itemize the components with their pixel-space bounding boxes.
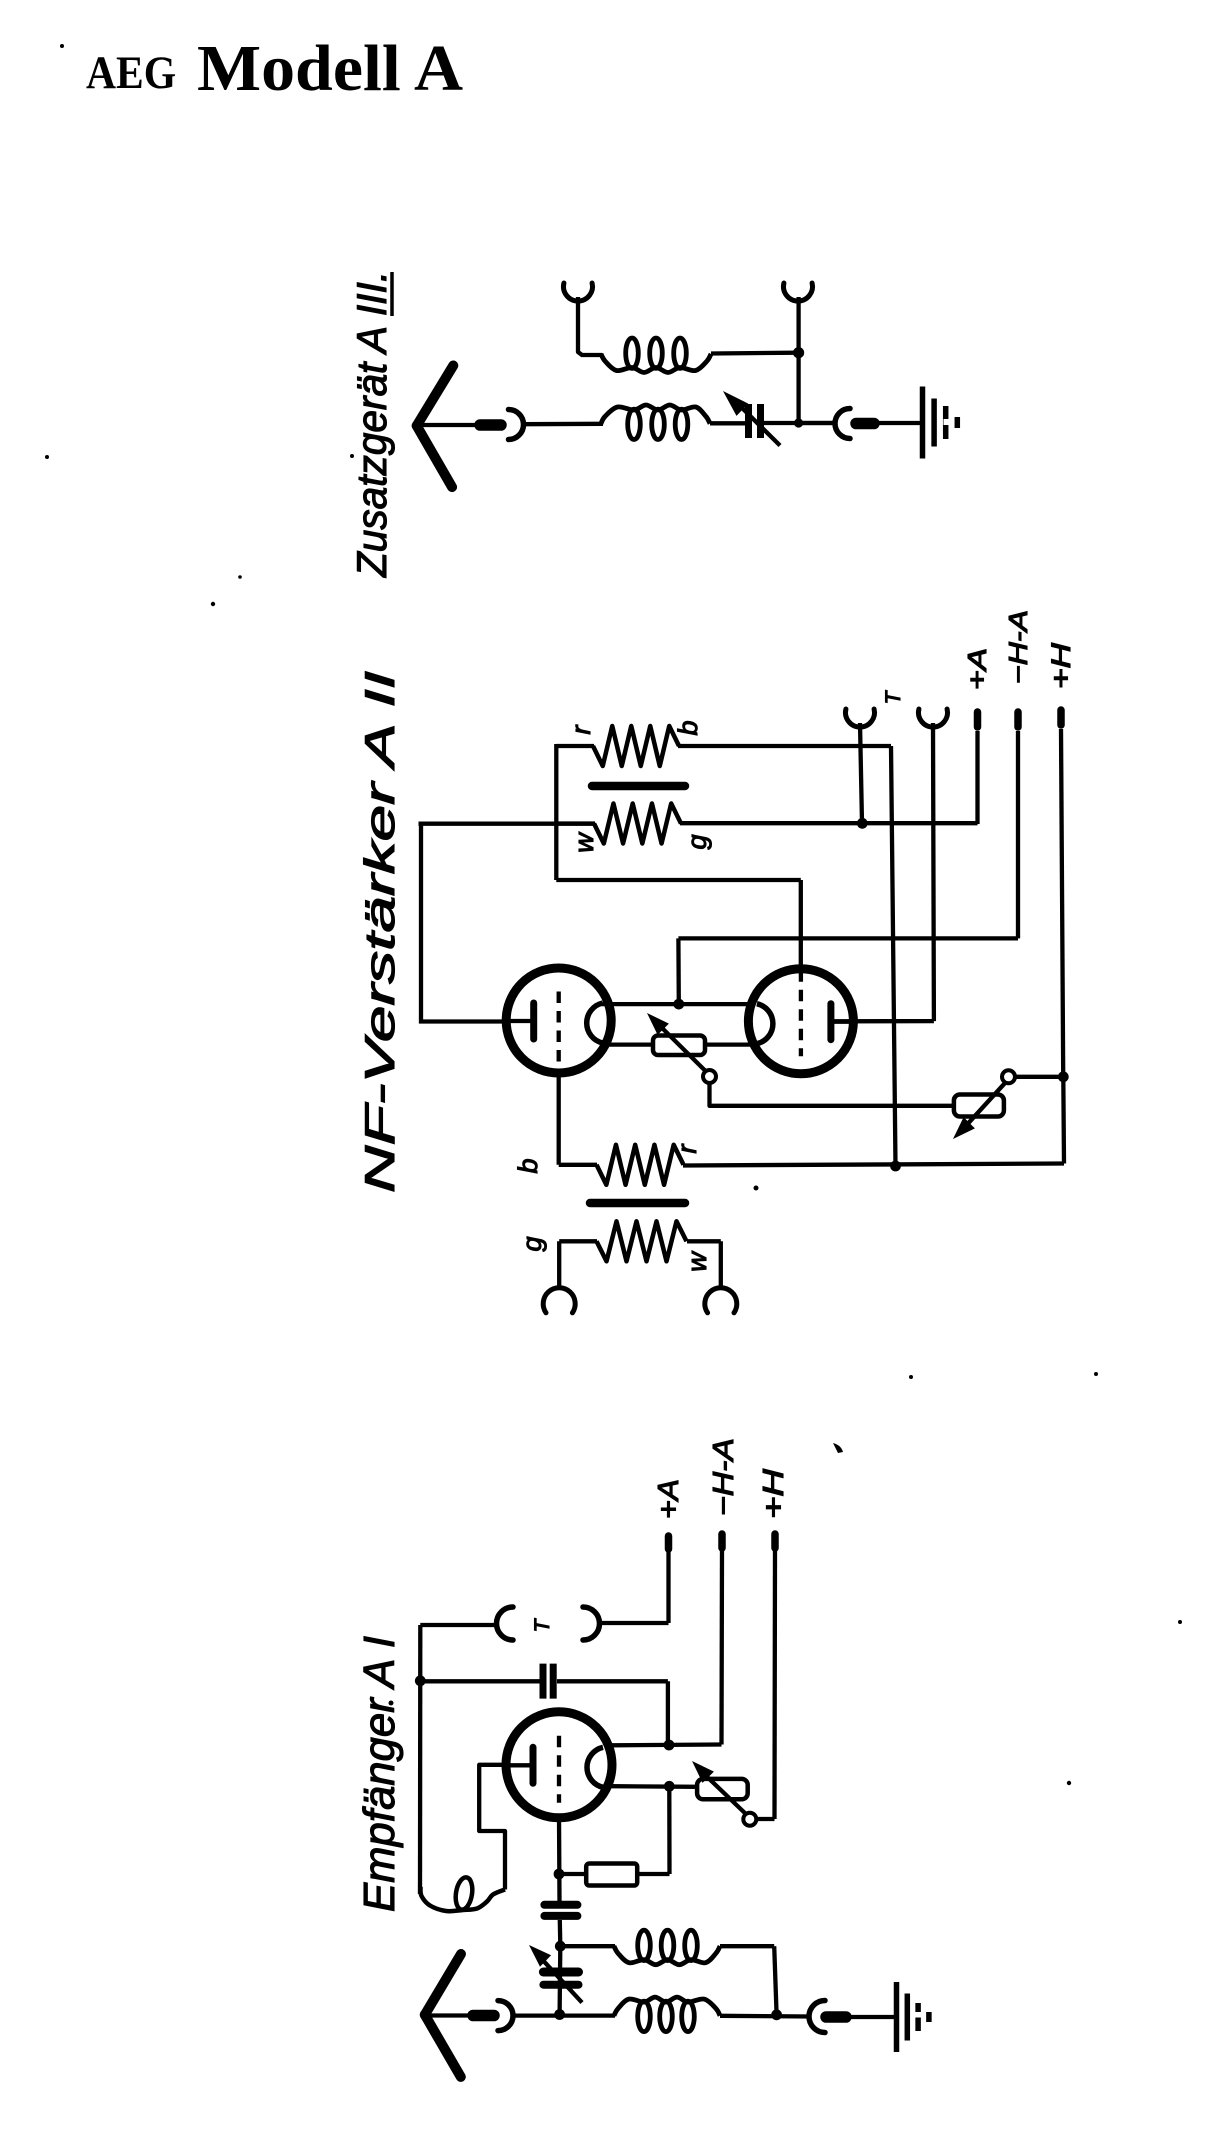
svg-text:−H-A: −H-A [1003,610,1033,684]
wire N2 up to cup-right [796,297,800,353]
coil L2 (lower, loops down) [601,405,710,424]
terminal -H-A (bottom) [718,1534,726,1548]
node N2 junction dot [793,347,804,358]
wire J1 to coil L2 [524,422,604,427]
rheostat R3 body [697,1779,748,1799]
svg-text:NF-Verstärker A II: NF-Verstärker A II [356,670,403,1193]
svg-text:b: b [513,1158,543,1173]
svg-text:g: g [682,834,712,849]
ground symbol E1 [920,387,926,459]
node +H/R2 junction dot [1058,1071,1069,1082]
svg-text:+H: +H [1046,642,1076,689]
wire R2 wiper to +H node [1015,1075,1064,1079]
svg-text:w: w [682,1251,712,1272]
rheostat R1 arrow [656,1022,706,1071]
wire corner down to main line [774,1946,776,2014]
variable capacitor C1 arrow [733,399,780,446]
plug P4 [826,2011,846,2023]
wire C3 down to tank node [558,1920,563,1946]
wire riser to tube V1 plate [419,822,423,1024]
wire -H-A down [1016,731,1020,938]
tube V3 [506,1712,612,1818]
wire P4 to ground [849,2015,897,2019]
wire antenna to plug [414,423,477,427]
svg-text:+H: +H [758,1469,790,1519]
wire V2 plate to cup2 stem [833,1019,934,1024]
tube V2 [748,969,853,1074]
wire +H down [1061,729,1063,1074]
tube V1 [506,968,611,1073]
wire C1 to node N1 [764,421,836,425]
wire to capacitor C2 [420,1679,540,1683]
wire vertical N1 to N2 [796,353,800,423]
coil L5 (lower, loops down) [614,1997,720,2016]
transformer T1 primary winding r-b [556,744,594,748]
antenna A1 [417,366,454,426]
wire +A corner up [975,731,979,824]
wire -H-A across left [678,936,1018,940]
wire left riser (T-jack to feedback coil) [418,1625,423,1894]
rheostat R2 arrow [963,1083,1005,1129]
wire filament bottom V1 to rheostat R1 [601,1042,654,1046]
rheostat R3 wiper circle [743,1813,756,1826]
coil L3 (upper, loops up) [614,1946,720,1965]
variable capacitor C4 arrow [538,1955,582,2003]
svg-text:+A: +A [653,1479,685,1519]
coil L1 (upper, loops up) [601,354,711,373]
transformer T2 core [590,1199,685,1208]
wire g to +A terminal, horizontal [680,821,978,825]
node filament-top dot [664,1740,675,1751]
node tank-bottom dot [554,2009,565,2020]
feedback coil L4 (single loop) [420,1887,505,1911]
ground E2 bar notch [915,2012,922,2018]
wire cup1 stem [860,723,862,823]
ground E1 bar notch [944,419,951,425]
svg-text:Zusatzgerät A III.: Zusatzgerät A III. [348,271,395,578]
wire L3 to corner [720,1944,774,1948]
wire antenna to plug [422,2013,472,2017]
variable capacitor C4 plates (horizontal) [543,1968,578,1977]
rheostat R2 wiper circle [1002,1070,1015,1083]
plug P2 [856,418,874,430]
cup T-jack right (middle) [919,709,948,727]
svg-text:T: T [882,689,905,704]
T-jack right crescent [583,1607,600,1640]
terminal +A (bottom) [665,1536,673,1549]
variable capacitor C1 plates [745,404,752,438]
scan specks [60,44,64,48]
wire plate V1 horizontal [419,1019,506,1023]
wire P2 to ground [877,421,922,425]
rheostat R3 arrow [701,1771,748,1816]
terminal +H (middle) [1057,710,1065,725]
node right-tank dot [771,2009,782,2020]
wire -H-A down [719,1548,724,1745]
wire +H down [772,1548,777,1819]
cup output right (opening down) [705,1288,737,1313]
transformer T1 secondary winding w-g [557,821,595,825]
wire tank vertical through variable cap [557,1946,562,2014]
T-jack left crescent [497,1607,514,1640]
wire cup-left down and to coil L1 [578,297,602,355]
node N1 junction dot [794,418,803,427]
wire L2 to variable capacitor C1 [710,421,745,425]
cup output left (opening down) [543,1288,575,1313]
wire w-left across to plate V1 riser [419,822,595,826]
bottom rail r-winding to +H corner [683,1164,1064,1166]
wire C2 to corner [557,1679,668,1683]
node grid/resistor dot [554,1869,565,1880]
rheostat R1 body [653,1036,705,1056]
wire down to V2 grid [799,880,803,968]
transformer T2 primary winding b-r [559,1163,597,1167]
svg-text:r: r [672,1144,702,1154]
plug P1 [480,419,501,431]
jack crescent J3 [498,2001,513,2031]
svg-text:w: w [569,832,599,853]
underline under III [390,272,394,316]
wire N1 to jack J2 [799,421,836,425]
jack crescent J4 [809,2001,825,2033]
node b/rail junction dot [890,1161,901,1172]
jack crescent J1 [509,410,524,440]
svg-text:−H-A: −H-A [708,1438,740,1516]
wire cup2 stem down to V2 plate wire [931,723,936,1021]
ground symbol E2 [894,1982,900,2052]
wire corner to resistor right end [637,1872,670,1876]
wire R1 wiper down/right to rheostat R2 [710,1083,955,1106]
wire to coil L3 [560,1944,615,1948]
capacitor C2 plates [540,1664,547,1699]
capacitor C3 plates (horizontal) [544,1901,577,1909]
terminal cup U-right top [784,283,813,301]
wire feedback coil to plate step [479,1765,506,1890]
cup T-jack left (middle) [846,709,875,727]
terminal -H-A (middle) [1014,712,1022,727]
wire +A corner up [666,1549,670,1623]
rheostat R1 wiper circle [703,1070,716,1083]
svg-text:Modell A: Modell A [197,32,463,105]
svg-text:+A: +A [962,648,992,690]
wire R1 right to V2 filament bottom [705,1042,753,1046]
wire J3 to coil L5 [513,2013,615,2017]
terminal +H (bottom) [771,1534,779,1548]
wire corner down to filament-top [666,1681,670,1745]
wire down to filament top node [676,938,681,1004]
wire L1 to node N2 [711,351,799,356]
rheostat R2 body [954,1095,1004,1117]
node tank-top dot [555,1941,566,1952]
wire V1 grid down to transformer T2 [557,1070,561,1165]
svg-text:g: g [517,1236,547,1251]
node grid-cap junction dot [415,1675,426,1686]
wire across to tube V2 grid [556,878,801,882]
wire filament top row [611,1742,722,1747]
svg-text:b: b [673,720,703,735]
wire V3 grid down to capacitor C3 [557,1815,562,1902]
svg-text:AEG: AEG [86,47,176,99]
wire L5 to jack J4 [720,2014,810,2019]
svg-text:T: T [531,1617,554,1632]
terminal cup U-left top [564,283,593,301]
resistor R4 body [586,1864,637,1886]
svg-text:Empfänger A I: Empfänger A I [355,1636,404,1912]
svg-text:r: r [566,725,596,735]
plug P3 [473,2010,494,2022]
node filament-bottom dot [664,1781,675,1792]
wire wiper to +H [756,1817,775,1821]
jack crescent J2 [835,409,850,439]
wire filament-bottom down to resistor [667,1786,672,1874]
wire filament top V1-V2 [601,1002,753,1006]
transformer T1 core [592,782,685,791]
node filament-top junction dot [673,999,684,1010]
node junction dot g/cup1 [857,818,868,829]
wire b riser down to bottom rail [891,746,896,1166]
wire r-left down to grid row [554,744,558,880]
wire resistor left to grid node [559,1872,586,1876]
wire g down to cup [557,1241,561,1290]
wire filament bottom row [611,1784,698,1789]
antenna A2 [425,1954,461,2015]
wire +H down to bottom rail [1061,1077,1066,1164]
wire w down to cup [719,1241,723,1290]
wire to T-jack left crescent [420,1623,497,1627]
terminal +A (middle) [974,712,982,727]
wire T-jack to +A corner [600,1621,669,1625]
transformer T2 secondary winding g-w [559,1239,597,1243]
